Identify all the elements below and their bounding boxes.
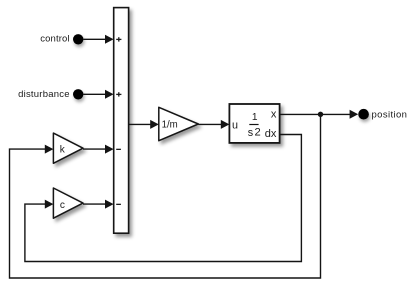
gain block 1/m	[159, 107, 199, 140]
sum sign - (input 4)	[116, 204, 121, 205]
arrowhead: feedback into c	[45, 200, 54, 209]
source port: disturbance	[73, 89, 83, 99]
wire: c to sum	[83, 200, 114, 209]
wire: control to sum	[83, 35, 113, 44]
gain block k	[53, 133, 83, 163]
svg-text:disturbance: disturbance	[18, 89, 69, 100]
svg-text:dx: dx	[265, 128, 277, 140]
svg-text:c: c	[60, 200, 65, 211]
svg-text:s: s	[248, 127, 254, 139]
svg-text:u: u	[232, 119, 238, 131]
source port: control	[73, 34, 83, 44]
gain block c	[53, 188, 83, 218]
sum block	[114, 8, 129, 234]
svg-text:x: x	[271, 108, 277, 120]
svg-text:control: control	[40, 34, 69, 45]
arrowhead: feedback into k	[45, 145, 54, 154]
feedback wire: x junction down, along bottom, up to k	[10, 114, 321, 278]
fraction bar	[249, 124, 258, 126]
wire: 1/m to integrator	[198, 120, 229, 129]
integrator block 1/s^2	[229, 104, 279, 143]
svg-text:2: 2	[255, 127, 261, 139]
svg-text:1: 1	[252, 112, 258, 123]
feedback wire: dx down, along bottom, up to c	[25, 135, 302, 262]
junction dot on x wire	[318, 112, 323, 117]
wire: disturbance to sum	[83, 90, 113, 99]
sink port: position	[358, 109, 369, 120]
sum sign + (input 2)	[116, 92, 121, 96]
wire: x output to position sink	[280, 110, 359, 119]
sum sign - (input 3)	[116, 149, 121, 150]
wire: sum to 1/m	[129, 120, 159, 129]
sum sign + (input 1)	[116, 37, 121, 41]
svg-text:position: position	[372, 109, 407, 120]
svg-text:1/m: 1/m	[162, 119, 178, 130]
wire: k to sum	[83, 145, 114, 154]
